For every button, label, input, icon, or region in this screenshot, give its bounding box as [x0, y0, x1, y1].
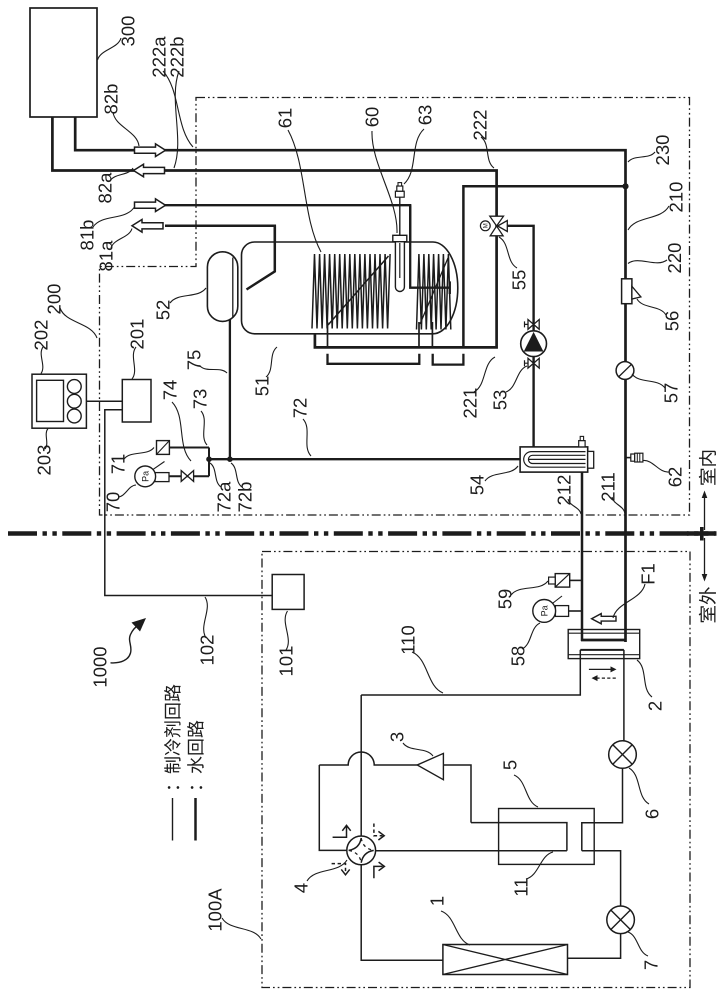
svg-text:6: 6 — [642, 809, 663, 819]
svg-text:210: 210 — [666, 182, 687, 213]
pipe 81a drop — [247, 226, 275, 290]
three-way valve 55 — [490, 216, 504, 226]
drain manifold piping — [156, 448, 209, 477]
tank bottom coil stubs — [328, 322, 433, 347]
pipe 221 branch to junction 230 — [463, 186, 625, 347]
svg-text:2: 2 — [645, 701, 666, 711]
svg-text:62: 62 — [665, 467, 686, 488]
internal HX 5 — [499, 809, 595, 865]
svg-text:3: 3 — [387, 732, 408, 742]
heater terminal stem — [399, 197, 401, 235]
svg-text:7: 7 — [641, 960, 662, 970]
HX2 refrigerant bar — [580, 649, 624, 651]
pressure sensor 58 — [569, 610, 582, 612]
hollow arrow 81b — [135, 199, 166, 212]
wire 82a from 300 — [52, 117, 496, 347]
indoor/outdoor indicator — [704, 496, 706, 530]
legend — [172, 798, 174, 841]
svg-text:211: 211 — [598, 472, 619, 502]
arrow F1 — [592, 614, 616, 624]
svg-text:51: 51 — [252, 376, 273, 397]
outdoor HX 1 — [443, 945, 568, 975]
svg-text:221: 221 — [460, 388, 481, 419]
svg-text:100A: 100A — [205, 888, 226, 932]
svg-text:59: 59 — [495, 589, 516, 610]
inner pipe 11 — [471, 823, 567, 851]
check valve 3 — [417, 753, 443, 779]
svg-text:72: 72 — [290, 398, 311, 419]
svg-text:110: 110 — [398, 625, 419, 655]
expansion valve 7 — [607, 906, 635, 934]
left heating coil 61 — [312, 254, 390, 329]
svg-text:1000: 1000 — [90, 646, 111, 687]
svg-text:70: 70 — [103, 492, 124, 513]
svg-text:63: 63 — [415, 105, 436, 126]
four-way valve piping — [376, 850, 567, 852]
svg-text:F1: F1 — [638, 563, 659, 585]
valve 73 — [181, 471, 193, 482]
drain valve 62 — [626, 457, 631, 459]
svg-text:212: 212 — [554, 475, 575, 506]
control box 101 — [272, 575, 304, 610]
svg-text:74: 74 — [160, 380, 181, 401]
water pump 53 — [521, 331, 547, 357]
svg-text:72a: 72a — [214, 481, 235, 513]
pipe 81a — [165, 226, 275, 290]
svg-text:73: 73 — [190, 389, 211, 410]
svg-text:53: 53 — [490, 390, 511, 411]
right coil — [417, 254, 451, 330]
remote display 203 — [37, 380, 64, 421]
expansion vessel 52 — [207, 252, 237, 322]
terminal fitting 63 — [395, 191, 404, 197]
svg-text:55: 55 — [509, 270, 530, 291]
junction node 230 — [622, 183, 628, 189]
svg-text:201: 201 — [127, 319, 148, 350]
bracket 72a — [328, 354, 420, 364]
svg-text:60: 60 — [362, 107, 383, 128]
svg-text:Pa: Pa — [539, 605, 549, 616]
svg-text:230: 230 — [652, 135, 673, 166]
svg-text:Pa: Pa — [140, 471, 150, 482]
service valve upper — [528, 320, 539, 330]
remote buttons — [67, 380, 81, 394]
svg-text:11: 11 — [511, 877, 532, 896]
coil diagonal — [328, 256, 389, 325]
valve4 mode arrows — [333, 825, 351, 837]
component 74 — [157, 441, 170, 455]
svg-text:222: 222 — [470, 110, 491, 141]
HX5 to valve 7 — [582, 851, 621, 906]
crossover hop — [319, 752, 417, 765]
wire 82b from 300 — [75, 117, 625, 642]
flow switch 56 — [622, 279, 632, 304]
left loop — [319, 765, 346, 850]
svg-text:82a: 82a — [95, 172, 116, 204]
controller 201 — [122, 380, 151, 423]
hollow arrow 81a — [132, 220, 163, 233]
svg-text:222b: 222b — [167, 36, 188, 77]
refrigerant line 110 — [361, 650, 580, 695]
flow arrows under HX2 — [589, 668, 612, 670]
plate heat exchanger 54 — [520, 447, 588, 472]
hot water tank 51 — [242, 242, 458, 334]
remote controller 202 — [32, 374, 86, 428]
pipe 81b — [165, 205, 450, 294]
box 300 external power device — [30, 8, 97, 117]
refrigerant to expansion valve 6 — [623, 650, 625, 741]
pipe 75 — [229, 320, 231, 460]
wire remote to 201 — [86, 400, 122, 402]
sensor 59 — [570, 579, 582, 581]
pipe 212 — [581, 472, 584, 641]
indoor unit boundary 210 — [100, 98, 690, 516]
right coil diagonal — [420, 258, 448, 324]
four-way valve 4 — [347, 836, 376, 865]
svg-text:300: 300 — [118, 16, 139, 47]
svg-text:72b: 72b — [235, 482, 256, 513]
service valve lower — [528, 358, 539, 368]
junction 72b — [227, 456, 233, 462]
svg-text:202: 202 — [31, 320, 52, 351]
re-draw 81b drop over coil — [410, 205, 450, 294]
pipe 72 — [209, 458, 520, 460]
wire 102 — [105, 410, 272, 596]
svg-text:5: 5 — [500, 760, 521, 770]
expansion valve 6 — [609, 741, 637, 769]
water HX 2 outer — [568, 630, 640, 659]
bracket 72b — [433, 354, 464, 365]
temperature sensor 57 — [616, 362, 634, 380]
svg-text:54: 54 — [467, 475, 488, 496]
refrigerant valve6 to HX5 — [582, 768, 623, 851]
svg-text:1: 1 — [427, 896, 448, 906]
junction 72a — [206, 456, 212, 462]
svg-text:220: 220 — [664, 243, 685, 274]
svg-text:203: 203 — [34, 445, 55, 476]
svg-text:200: 200 — [44, 284, 65, 315]
hollow arrow 82a — [134, 164, 165, 177]
indoor/outdoor bold separator — [8, 531, 717, 535]
pressure sensor 70 — [155, 473, 169, 482]
svg-text:102: 102 — [197, 635, 218, 666]
svg-text:4: 4 — [291, 883, 312, 893]
hollow arrow 82b — [135, 144, 166, 157]
svg-text:58: 58 — [508, 646, 529, 667]
svg-text:61: 61 — [275, 108, 296, 129]
electric heater 60 — [395, 242, 404, 292]
HX2 water U-bar — [581, 639, 626, 642]
svg-text:81b: 81b — [77, 220, 98, 251]
pipe valve55 to pump — [507, 226, 533, 447]
svg-text:M: M — [483, 223, 489, 228]
valve7 to HX1 — [568, 934, 621, 959]
outdoor unit boundary 100A — [262, 552, 690, 988]
svg-text:82b: 82b — [101, 84, 122, 115]
valve4 to HX1 — [361, 865, 443, 961]
svg-text:101: 101 — [276, 646, 297, 677]
